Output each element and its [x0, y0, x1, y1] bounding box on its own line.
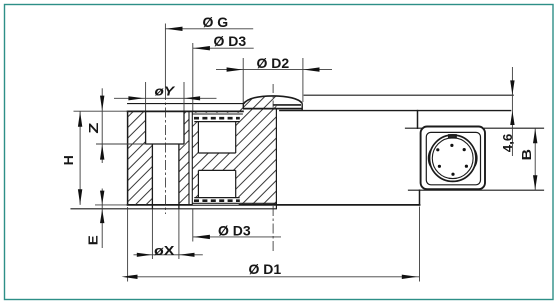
svg-text:E: E	[87, 235, 101, 245]
clamp tab right	[475, 150, 477, 166]
lower thread serration	[194, 199, 240, 202]
dim E line	[101, 189, 103, 249]
upper flange line	[192, 113, 243, 115]
svg-text:Ø D2: Ø D2	[257, 55, 290, 71]
dim ØD2 extensions	[242, 58, 244, 103]
svg-text:H: H	[62, 155, 76, 165]
dim H extension bottom	[95, 204, 128, 206]
dim ØD3 top line	[193, 47, 254, 49]
dim H line	[79, 111, 81, 205]
boss right edge at section plane	[275, 109, 277, 209]
body bottom surface	[128, 204, 420, 206]
upper boss bottom	[198, 152, 235, 154]
dim Z extension bottom	[96, 143, 146, 145]
dim B line	[534, 128, 536, 190]
dim Z line	[101, 88, 103, 163]
arrow H top	[78, 112, 82, 127]
dim ØD1 extensions	[127, 207, 129, 282]
arrow Z bottom	[100, 144, 104, 159]
arrow H bottom	[78, 189, 82, 204]
connector pins	[436, 144, 468, 176]
centre boss hatch with dome left half	[239, 95, 277, 204]
dome inner step line right half	[273, 104, 301, 106]
arrow ØD3 bottom	[193, 235, 210, 239]
housing bottom right surface	[409, 189, 544, 191]
arrow øX left	[137, 253, 152, 257]
counterbore bottom	[146, 143, 184, 145]
dim øX line	[134, 254, 203, 256]
dim ØG extension	[164, 24, 166, 91]
dome right edge	[301, 103, 303, 110]
counterbore walls	[145, 112, 147, 145]
dome left base corner	[242, 104, 244, 109]
connector box inner	[426, 132, 480, 184]
svg-text:øY: øY	[155, 84, 176, 99]
clamp tab left	[428, 150, 430, 166]
upper thread serration	[194, 117, 240, 120]
dome base plate line	[243, 108, 302, 110]
dome arc	[243, 96, 302, 104]
annular gap edges	[188, 112, 190, 205]
dim øY line	[114, 97, 217, 99]
arrow ØD3 top	[193, 46, 210, 50]
arrow ØD1 left	[122, 275, 138, 279]
keyway notch	[449, 135, 456, 138]
thread hole walls	[151, 144, 153, 209]
svg-text:Z: Z	[87, 122, 101, 134]
step surface right of connector	[485, 127, 544, 129]
svg-text:4,6: 4,6	[500, 134, 515, 153]
arrow E bottom	[100, 209, 104, 223]
svg-text:Ø D1: Ø D1	[249, 261, 282, 277]
arrow øY left	[128, 96, 143, 100]
raised ring top line	[304, 94, 513, 96]
svg-text:øX: øX	[154, 243, 175, 258]
main axis upper	[272, 84, 274, 108]
dim ØD1 line	[128, 276, 420, 278]
upper boss sides	[197, 122, 199, 153]
lower boss sides	[197, 170, 199, 197]
bolt hole axis	[165, 90, 167, 214]
lower boss bottom line	[71, 208, 276, 210]
body top surface right of section	[280, 110, 511, 112]
lower flange line	[192, 202, 276, 204]
arrow ØG	[166, 27, 183, 31]
dim ØD3 bottom line	[193, 236, 281, 238]
arrow 4,6 bottom	[510, 111, 514, 125]
body right edge	[417, 111, 419, 129]
arrow B bottom	[533, 175, 537, 190]
dim ØD3 bottom extension	[192, 209, 194, 242]
arrow ØD2 right	[303, 67, 319, 71]
lower washer line	[194, 197, 239, 199]
dim ØD3 top extension	[192, 43, 194, 111]
svg-text:Ø G: Ø G	[203, 14, 229, 30]
connector outer circle	[430, 135, 476, 181]
left body block left edge	[127, 112, 129, 205]
upper washer line	[194, 121, 239, 123]
arrow ØD1 right	[402, 275, 418, 279]
membrane top line left region	[128, 103, 244, 105]
left flange hatch (around bolt hole)	[128, 112, 153, 205]
svg-text:B: B	[520, 149, 534, 161]
dim øX extensions	[151, 209, 153, 259]
svg-text:Ø D3: Ø D3	[218, 222, 251, 238]
main axis lower	[272, 206, 274, 252]
dim øY extensions	[145, 82, 147, 111]
white strips masking serration rows over column hatch	[192, 113, 238, 122]
arrow 4,6 top	[510, 80, 514, 95]
arrow ØD2 left	[227, 67, 243, 71]
dim Z / H extension top	[74, 110, 128, 112]
connector bracket ledge left	[406, 127, 422, 129]
connector inner circle	[432, 138, 473, 179]
dim ØG line	[165, 28, 253, 30]
arrow øX right	[179, 253, 194, 257]
connector box outer	[421, 127, 485, 190]
dim ØD2 line	[216, 69, 332, 71]
arrow øY right	[184, 96, 200, 100]
svg-text:Ø D3: Ø D3	[214, 33, 247, 49]
step edge bottom right	[419, 190, 421, 205]
arrow E top	[100, 191, 104, 205]
lower boss top	[198, 169, 235, 171]
left block top surface	[128, 110, 243, 112]
dim 4,6 line	[511, 67, 513, 156]
inner element hatch column	[192, 112, 238, 205]
arrow Z top	[100, 96, 104, 111]
arrow B top	[533, 129, 537, 144]
